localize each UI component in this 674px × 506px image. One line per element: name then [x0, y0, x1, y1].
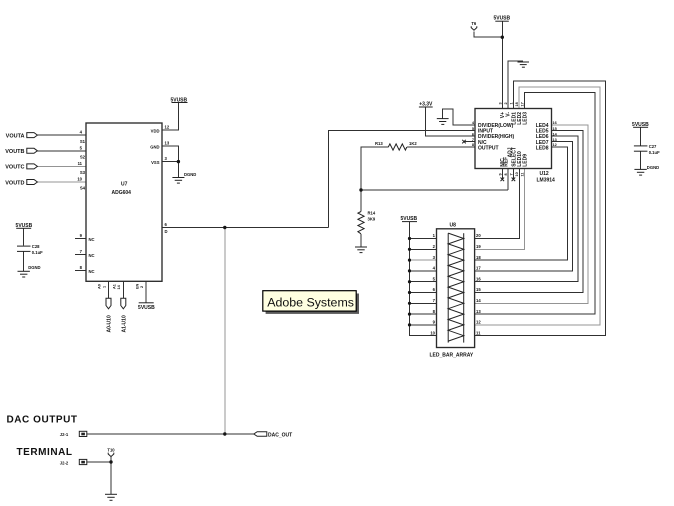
- svg-text:17: 17: [476, 266, 481, 271]
- svg-text:VOUTD: VOUTD: [5, 180, 24, 186]
- U12 bottom pin names: [500, 147, 528, 167]
- U8 right pin numbers: [476, 233, 481, 335]
- svg-text:12: 12: [476, 320, 481, 325]
- wire U7.GND down to VSS node: [162, 146, 178, 162]
- wire U12.LED4 to U8 pin14: [475, 125, 588, 303]
- svg-text:DGND: DGND: [28, 265, 40, 270]
- svg-text:LM3914: LM3914: [537, 178, 556, 184]
- svg-text:10: 10: [430, 330, 435, 335]
- svg-text:EN: EN: [135, 283, 139, 289]
- svg-text:2: 2: [504, 102, 508, 104]
- U8 bus junction dots: [408, 237, 411, 327]
- node junction U7 D branch: [223, 226, 226, 229]
- svg-text:15: 15: [553, 127, 557, 131]
- U12 top pin names: [500, 112, 528, 125]
- svg-text:11: 11: [521, 172, 525, 176]
- U7 bottom pin labels: [98, 283, 144, 289]
- svg-text:VOUTC: VOUTC: [5, 165, 24, 171]
- wire U12.LED1 to U8 pin11: [475, 81, 606, 336]
- wire U12.LED8 to U8 pin18: [475, 147, 568, 260]
- svg-text:DGND: DGND: [647, 165, 659, 170]
- svg-text:U8: U8: [450, 222, 457, 228]
- wire R13 left leg: [361, 147, 388, 190]
- node VOUTD flag: [27, 180, 38, 185]
- svg-text:11: 11: [476, 330, 481, 335]
- node A0 flag: [106, 298, 111, 309]
- svg-text:DAC OUTPUT: DAC OUTPUT: [7, 415, 78, 426]
- svg-text:20: 20: [476, 233, 481, 238]
- ground at R14: [355, 247, 367, 253]
- svg-text:LED3: LED3: [522, 112, 528, 125]
- power +3.3V at U12: [419, 102, 433, 108]
- svg-text:S3: S3: [80, 170, 86, 175]
- svg-text:A1: A1: [113, 284, 117, 289]
- ground at U12 V-: [518, 62, 530, 67]
- svg-text:19: 19: [476, 244, 481, 249]
- resistor R14 3K9: [358, 211, 376, 234]
- ground at U12 DIVIDER(LOW): [437, 119, 449, 125]
- svg-text:1K2: 1K2: [409, 141, 417, 146]
- svg-text:7: 7: [472, 138, 474, 142]
- power 5VUSB at U12 V+: [493, 16, 510, 22]
- U7 left pin numbers and names: [77, 125, 170, 274]
- wire U12 N/C left stub: [464, 141, 475, 143]
- svg-text:8: 8: [504, 173, 508, 175]
- svg-text:TERMINAL: TERMINAL: [17, 447, 73, 458]
- svg-text:NC: NC: [89, 237, 95, 242]
- power 5VUSB at U7.EN: [138, 303, 155, 311]
- power 5VUSB at U7.VDD: [170, 97, 187, 103]
- svg-text:12: 12: [165, 125, 170, 130]
- svg-text:J2-2: J2-2: [60, 461, 69, 466]
- U12 left pin names: [478, 123, 514, 152]
- wire +3.3V to U12.DIVIDER(HIGH): [426, 107, 475, 136]
- svg-text:LED8: LED8: [536, 145, 549, 151]
- svg-text:S1: S1: [80, 139, 86, 144]
- wire U7.A0 pin: [108, 281, 110, 298]
- svg-text:A0-U10: A0-U10: [107, 315, 113, 332]
- connector J2-1: [60, 431, 87, 437]
- svg-text:5VUSB: 5VUSB: [138, 305, 155, 311]
- svg-text:R14: R14: [368, 211, 376, 216]
- wire U12.LED6 to U8 pin16: [475, 136, 578, 282]
- svg-text:T6: T6: [471, 21, 477, 26]
- wire U7.A1 pin: [122, 281, 124, 298]
- wire U7 NC stubs: [75, 238, 86, 240]
- svg-text:8: 8: [472, 143, 474, 147]
- svg-text:S4: S4: [80, 186, 86, 191]
- svg-text:16: 16: [476, 276, 481, 281]
- wire U12.LED9 to U8 pin19: [475, 169, 525, 250]
- svg-text:J2-1: J2-1: [60, 432, 69, 437]
- no-connect cross U12 pin7: [462, 140, 466, 144]
- svg-text:3K9: 3K9: [368, 217, 376, 222]
- svg-text:GND: GND: [150, 144, 159, 149]
- connector J2-2: [60, 459, 87, 465]
- power 5VUSB at C27: [632, 122, 649, 128]
- ground DGND at C27: [634, 165, 659, 175]
- svg-text:0.1uF: 0.1uF: [649, 150, 660, 155]
- svg-text:DGND: DGND: [184, 172, 196, 177]
- U8 left pin numbers: [430, 233, 435, 335]
- svg-text:14: 14: [476, 298, 481, 303]
- wire U12.LED2 to U8 pin12: [475, 87, 600, 325]
- node VOUTB flag: [27, 148, 38, 153]
- wire U12 V- to ground: [508, 61, 523, 108]
- svg-text:VSS: VSS: [151, 160, 160, 165]
- U8 inner LED bar: [448, 233, 464, 343]
- U12 right pin names: [536, 123, 549, 152]
- svg-text:VDD: VDD: [151, 128, 160, 133]
- wire C27 bottom to DGND: [640, 151, 642, 169]
- svg-text:0.1uF: 0.1uF: [32, 250, 43, 255]
- svg-text:16: 16: [553, 121, 557, 125]
- ground DGND at U7.VSS: [172, 172, 196, 183]
- svg-text:1: 1: [102, 286, 106, 288]
- wire 5VUSB bus for U8 anodes: [410, 222, 437, 336]
- wire VOUTA to U7.S1: [37, 134, 86, 136]
- svg-text:12: 12: [553, 143, 557, 147]
- wire U7.EN to 5VUSB: [145, 281, 147, 302]
- wire T6 to V+ rail: [474, 31, 502, 37]
- node DAC_OUT flag: [254, 432, 267, 437]
- wire U12.LED3 to U8 pin13: [475, 93, 595, 315]
- svg-text:NC: NC: [89, 269, 95, 274]
- svg-text:7: 7: [510, 173, 514, 175]
- terminal T6: [471, 21, 477, 30]
- resistor R13 1K2: [375, 141, 417, 150]
- svg-text:2: 2: [140, 286, 144, 288]
- terminal T10: [107, 447, 115, 456]
- capacitor C28 0.1uF: [17, 244, 43, 255]
- svg-text:S2: S2: [80, 155, 86, 160]
- node junction U7 VSS: [177, 160, 180, 163]
- node VOUTA flag: [27, 133, 38, 138]
- wire U12.REFADJ drop: [507, 169, 509, 191]
- svg-text:T10: T10: [107, 447, 115, 452]
- svg-text:LED_BAR_ARRAY: LED_BAR_ARRAY: [430, 353, 474, 359]
- svg-text:R13: R13: [375, 141, 383, 146]
- node junction T10: [109, 460, 112, 463]
- power 5VUSB at U8 bus: [400, 216, 417, 222]
- wire C27 top: [640, 127, 642, 145]
- svg-text:10: 10: [77, 177, 82, 182]
- svg-text:D: D: [165, 229, 168, 234]
- wire U12.LED5 to U8 pin15: [475, 131, 583, 293]
- svg-text:VOUTB: VOUTB: [5, 149, 24, 155]
- tooltip Adobe Systems: [263, 291, 359, 314]
- no-connect cross U12 bottom N/C: [501, 178, 505, 182]
- node junction R14: [359, 188, 362, 191]
- svg-text:11: 11: [78, 161, 83, 166]
- svg-text:C27: C27: [649, 144, 657, 149]
- svg-text:A1-U10: A1-U10: [121, 315, 127, 332]
- svg-text:DAC_OUT: DAC_OUT: [268, 432, 292, 438]
- svg-text:1: 1: [510, 102, 514, 104]
- capacitor C27 0.1uF: [634, 144, 660, 155]
- op-amp U12 LM3914 body: [475, 109, 552, 169]
- wire U7.D output to riser: [162, 227, 329, 229]
- wire U12 SELECT stub: [512, 169, 514, 180]
- wire J2-2 to T10: [87, 461, 111, 463]
- svg-text:18: 18: [476, 255, 481, 260]
- svg-text:10: 10: [515, 172, 519, 176]
- wire U8 cathode stubs: [464, 238, 475, 240]
- wire C28 bottom to DGND: [23, 251, 25, 270]
- svg-text:LED9: LED9: [522, 154, 528, 167]
- U12 right pin numbers: [553, 121, 558, 147]
- svg-text:17: 17: [521, 102, 525, 106]
- node A1 flag: [121, 298, 126, 309]
- wire VOUTB to U7.S2: [37, 150, 86, 152]
- U12 top pin numbers: [499, 102, 525, 106]
- svg-text:5: 5: [472, 127, 474, 131]
- power 5VUSB at C28: [16, 223, 33, 229]
- wire T10 stem: [110, 456, 112, 462]
- svg-text:Adobe Systems: Adobe Systems: [267, 295, 354, 309]
- svg-text:15: 15: [476, 287, 481, 292]
- svg-text:A0: A0: [98, 284, 102, 289]
- wire U12 DIVIDER(LOW) to ground: [443, 109, 475, 125]
- ground DGND at C28: [18, 265, 41, 277]
- wire R14 bottom leg: [360, 234, 362, 247]
- svg-text:3: 3: [499, 102, 503, 104]
- svg-text:18: 18: [515, 102, 519, 106]
- wire U12.LED7 to U8 pin17: [475, 142, 573, 271]
- wire R14 top leg: [360, 190, 362, 212]
- svg-text:NC: NC: [89, 253, 95, 258]
- wire U7.VDD to 5VUSB: [162, 103, 178, 131]
- wire U12 V+ to 5VUSB: [501, 22, 503, 109]
- wire T10 node to ground: [110, 462, 112, 494]
- svg-text:13: 13: [476, 309, 481, 314]
- svg-text:C28: C28: [32, 244, 40, 249]
- wire U8 anode rows: [410, 238, 449, 240]
- wire U12 bottom N/C stub: [501, 169, 503, 180]
- wire DAC output net: [87, 433, 254, 435]
- svg-text:U12: U12: [540, 171, 549, 177]
- node VOUTC flag: [27, 164, 38, 169]
- connector U8 LED_BAR_ARRAY body: [437, 229, 475, 348]
- U12 bottom pin numbers: [499, 172, 525, 176]
- U12 left pin numbers: [472, 121, 475, 147]
- no-connect cross U12 SELECT: [512, 178, 516, 182]
- wire U7.VSS to DGND: [162, 162, 178, 177]
- svg-text:ADG604: ADG604: [112, 190, 132, 196]
- svg-text:13: 13: [553, 138, 557, 142]
- wire VOUTD to U7.S4: [37, 181, 86, 183]
- wire R13 right to U12.OUTPUT: [407, 146, 475, 148]
- wire VOUTC to U7.S3: [37, 165, 86, 167]
- wire U12.LED10 to U8 pin20: [475, 169, 520, 239]
- ground at T10: [105, 494, 117, 500]
- svg-text:U7: U7: [121, 182, 128, 188]
- node junction V+ rail: [501, 36, 504, 39]
- node junction DAC net: [223, 432, 226, 435]
- svg-text:OUTPUT: OUTPUT: [478, 145, 499, 151]
- svg-text:6: 6: [472, 132, 474, 136]
- op-amp U7 ADG604 body: [86, 123, 162, 281]
- wire C28 top: [23, 229, 25, 246]
- svg-text:13: 13: [165, 141, 170, 146]
- wire R14 node rail to U12.REFADJ: [361, 189, 508, 191]
- wire riser to U12 INPUT: [329, 131, 476, 228]
- svg-text:VOUTA: VOUTA: [6, 133, 25, 139]
- wire drop to DAC net: [224, 228, 226, 435]
- svg-text:9: 9: [499, 173, 503, 175]
